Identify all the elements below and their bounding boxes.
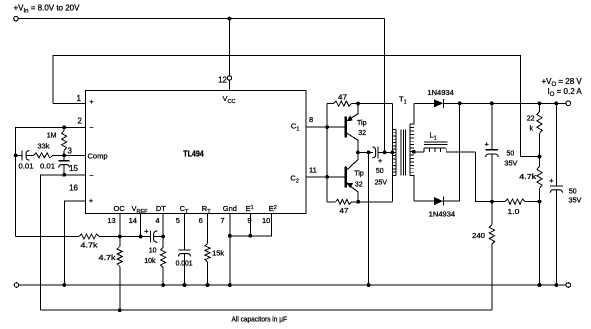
svg-text:6: 6	[199, 216, 203, 225]
svg-text:All capacitors in µF: All capacitors in µF	[232, 314, 288, 323]
junction VO rail D2	[458, 101, 462, 105]
junction gnd pin7	[228, 283, 232, 287]
label 10	[149, 247, 157, 254]
label + 10uF	[144, 227, 149, 236]
svg-text:50: 50	[507, 150, 515, 157]
svg-text:14: 14	[129, 216, 137, 225]
label 33k	[38, 144, 51, 151]
junction gnd 15k	[206, 283, 210, 287]
label 32 top	[358, 130, 366, 137]
inductor L1 core	[424, 142, 448, 145]
ground terminal left	[14, 283, 19, 288]
label Tip top	[357, 120, 367, 127]
capacitor 50uF 35V first	[486, 103, 499, 201]
label 0.01 comp	[40, 164, 55, 171]
label E2	[269, 204, 277, 213]
label 47 bottom	[340, 206, 349, 215]
transformer T1 primary winding	[392, 104, 396, 202]
label pin 14	[129, 216, 137, 225]
label pin 15	[69, 164, 78, 173]
label VCC	[223, 94, 236, 105]
label 50 35V cap2	[568, 188, 581, 204]
junction gnd 4.7k right	[538, 283, 542, 287]
label 240	[472, 233, 485, 240]
resistor 47 top	[327, 101, 358, 106]
label VREF	[132, 204, 149, 215]
junction pin8 node	[325, 125, 329, 129]
svg-text:0.01: 0.01	[40, 164, 55, 171]
wire pin2	[16, 127, 86, 155]
svg-text:TL494: TL494	[183, 150, 204, 159]
svg-text:35V: 35V	[504, 161, 517, 168]
label Gnd	[223, 204, 237, 213]
wire base bus vertical	[326, 104, 328, 202]
svg-text:1M: 1M	[47, 132, 57, 139]
junction gnd 10k	[161, 283, 165, 287]
junction Q1 emitter node	[356, 102, 360, 106]
wire pin12 upper	[229, 19, 231, 76]
junction gnd 0.001	[183, 283, 187, 287]
diode D1 1N4934 top	[434, 99, 444, 108]
svg-text:15k: 15k	[212, 250, 225, 257]
capacitor 0.01 left	[16, 150, 34, 160]
wire pin1 stub	[53, 102, 86, 104]
label pin 13	[107, 216, 115, 225]
label 4.7k vertical	[99, 255, 117, 262]
resistor 15k on pin6	[205, 214, 210, 286]
svg-text:+: +	[485, 139, 490, 148]
svg-text:OC: OC	[114, 204, 126, 213]
label pin 11	[309, 166, 317, 175]
svg-text:Tip: Tip	[354, 171, 364, 178]
label 22k	[527, 115, 535, 132]
svg-text:10k: 10k	[144, 258, 156, 265]
junction cap ground side	[367, 151, 371, 155]
wire pin13	[119, 214, 121, 237]
svg-text:+: +	[378, 156, 383, 165]
junction pin15/cap	[62, 173, 66, 177]
wire VIN top rail	[18, 18, 384, 20]
junction output node	[490, 200, 494, 204]
svg-text:10: 10	[262, 216, 270, 225]
junction VIN feed/cap	[383, 151, 387, 155]
svg-text:+: +	[89, 97, 94, 106]
wire E1 E2 tie	[230, 214, 271, 236]
svg-text:240: 240	[472, 233, 485, 240]
junction gnd pin16	[62, 283, 66, 287]
label pin 16	[69, 184, 78, 193]
wire left rail down	[15, 155, 17, 236]
label pin 12	[218, 76, 227, 85]
label +VO = 28 V	[542, 77, 583, 88]
label 1N4934 bottom	[429, 212, 456, 219]
wire pin14	[140, 214, 142, 237]
label 50 35V cap1	[504, 150, 517, 167]
resistor 4.7k vertical	[117, 237, 122, 311]
svg-text:8: 8	[309, 115, 313, 124]
junction pin11 node	[325, 175, 329, 179]
wire pin12 lower	[229, 80, 231, 90]
resistor 22k	[537, 103, 542, 156]
capacitor 10uF	[150, 231, 163, 243]
junction pin14 node	[139, 235, 143, 239]
svg-text:Comp: Comp	[88, 151, 108, 160]
svg-text:1: 1	[77, 94, 82, 103]
label pin 8	[309, 115, 313, 124]
label C2	[290, 174, 298, 185]
label pin 7	[220, 216, 224, 225]
svg-text:22: 22	[527, 115, 535, 122]
capacitor 0.001 on pin5	[178, 214, 190, 286]
label C1	[291, 121, 299, 132]
junction VIN/pin12	[228, 17, 232, 21]
wire secondary bottom to diode	[414, 200, 434, 202]
svg-text:+: +	[549, 176, 554, 185]
transformer T1 secondary winding	[410, 103, 414, 201]
svg-text:47: 47	[340, 206, 349, 215]
svg-text:1N4934: 1N4934	[429, 212, 456, 219]
label L1	[430, 131, 437, 142]
label pin15 -	[89, 171, 94, 180]
junction pin13 node	[118, 235, 122, 239]
wire pin11	[306, 176, 345, 178]
svg-text:10: 10	[149, 247, 157, 254]
junction pin7/E-tie	[228, 234, 232, 238]
wire diode bottom up	[444, 103, 460, 201]
junction collectors	[356, 151, 360, 155]
label RT	[202, 204, 211, 215]
label pin1 +	[89, 97, 94, 106]
label 1N4934 top	[427, 90, 454, 97]
wire diode top out	[444, 102, 460, 104]
label DT	[156, 204, 166, 213]
transistor Q2 TIP32 bottom	[346, 152, 358, 201]
label 10k	[144, 258, 156, 265]
svg-text:9: 9	[247, 216, 251, 225]
junction pin3 node	[62, 154, 66, 158]
svg-text:−: −	[89, 123, 94, 132]
svg-text:4.7k: 4.7k	[81, 242, 99, 249]
capacitor 50uF 25V	[369, 146, 385, 158]
wire L1 to output node	[475, 152, 492, 202]
resistor 1M	[62, 127, 67, 155]
junction VO cap2	[555, 101, 559, 105]
svg-text:12: 12	[218, 76, 227, 85]
svg-text:4.7k: 4.7k	[519, 174, 537, 181]
op-amp IC U1 TL494 box	[85, 90, 306, 213]
svg-text:Tip: Tip	[357, 120, 367, 127]
capacitor 50uF 35V output	[550, 103, 563, 285]
wire collector cap to ground	[368, 152, 370, 285]
capacitor 0.01 comp	[59, 155, 70, 174]
wire pin1 feedback rail	[53, 55, 540, 156]
wire collector node row	[358, 151, 369, 153]
label 32 bottom	[355, 182, 363, 189]
label 1.0	[507, 209, 519, 216]
label 47 top	[338, 92, 347, 101]
label pin2 -	[89, 123, 94, 132]
junction Q2 emitter node	[356, 200, 360, 204]
svg-text:25V: 25V	[375, 180, 388, 187]
svg-text:+: +	[144, 227, 149, 236]
junction VO cap1	[490, 101, 494, 105]
junction secondary center tap	[412, 150, 416, 154]
svg-text:32: 32	[355, 182, 363, 189]
label E1	[246, 204, 254, 213]
label OC	[114, 204, 126, 213]
svg-text:Gnd: Gnd	[223, 204, 237, 213]
diode D2 1N4934 bottom	[434, 197, 444, 206]
label pin16 +	[89, 196, 94, 205]
label +VIN = 8.0V to 20V	[14, 4, 81, 15]
resistor 10k on pin4	[161, 214, 166, 286]
svg-text:13: 13	[107, 216, 115, 225]
label + cap2	[549, 176, 554, 185]
svg-text:11: 11	[309, 166, 317, 175]
junction gnd output cap	[555, 283, 559, 287]
svg-text:35V: 35V	[568, 198, 581, 205]
junction pin2/1M	[62, 125, 66, 129]
wire pin3	[53, 154, 86, 156]
transformer T1 core	[401, 129, 406, 175]
wire pin7 ground	[229, 214, 231, 286]
label + 50uF25V	[378, 156, 383, 165]
junction left rail/C1cap	[14, 154, 18, 158]
resistor 4.7k horizontal	[79, 234, 99, 239]
junction sense node	[538, 200, 542, 204]
label 50 25V value	[375, 168, 388, 187]
label + cap1	[485, 139, 490, 148]
svg-text:1N4934: 1N4934	[427, 90, 454, 97]
svg-text:33k: 33k	[38, 144, 51, 151]
wire after 4.7k	[99, 236, 150, 238]
resistor 240	[489, 202, 494, 311]
label pin 6	[199, 216, 203, 225]
wire pin9	[249, 214, 251, 236]
junction VO 22k	[538, 101, 542, 105]
label pin 1	[77, 94, 82, 103]
label pin 2	[78, 117, 83, 126]
wire ground rail	[19, 284, 566, 286]
svg-text:1.0: 1.0	[507, 209, 519, 216]
output terminal +VO	[566, 101, 571, 106]
svg-text:0.01: 0.01	[19, 164, 34, 171]
input terminal +VIN	[14, 16, 19, 21]
junction gnd collector cap	[367, 283, 371, 287]
label CT	[180, 204, 189, 215]
resistor 47 bottom	[327, 199, 351, 204]
transistor Q1 TIP32 top	[346, 104, 358, 153]
wire VREF row	[16, 236, 79, 238]
svg-text:5: 5	[176, 216, 180, 225]
junction pin9 tie	[248, 234, 252, 238]
junction primary center tap	[391, 151, 395, 155]
label 15k	[212, 250, 225, 257]
label T1	[399, 95, 407, 106]
wire emitter to primary top	[358, 103, 392, 105]
svg-text:k: k	[530, 126, 534, 133]
label pin 9	[247, 216, 251, 225]
wire VO rail	[460, 102, 566, 104]
wire VIN feed down to transformer center tap	[384, 19, 386, 153]
label 0.001	[176, 261, 193, 268]
svg-text:50: 50	[376, 168, 384, 175]
label TL494	[183, 150, 204, 159]
pin 12 connector circle	[227, 76, 231, 80]
junction feedback/4.7k	[118, 308, 122, 312]
label Comp	[88, 151, 108, 160]
label IO = 0.2 A	[548, 87, 583, 98]
svg-text:15: 15	[69, 164, 78, 173]
svg-text:+: +	[89, 196, 94, 205]
resistor 1.0	[492, 199, 540, 204]
label pin 3	[68, 146, 73, 155]
wire center tap link	[385, 151, 393, 153]
wire pin16	[64, 201, 85, 285]
svg-text:32: 32	[358, 130, 366, 137]
svg-text:16: 16	[69, 184, 78, 193]
svg-text:4.7k: 4.7k	[99, 255, 117, 262]
wire pin8	[306, 126, 345, 128]
junction feedback divider	[538, 155, 542, 159]
resistor 33k	[34, 153, 53, 158]
inductor L1	[414, 148, 475, 152]
wire feedback bottom line	[41, 309, 492, 311]
svg-text:−: −	[89, 171, 94, 180]
label 4.7k right	[519, 174, 537, 181]
svg-text:3: 3	[68, 146, 73, 155]
svg-text:7: 7	[220, 216, 224, 225]
label Tip bottom	[354, 171, 364, 178]
wire sense to ground	[539, 202, 541, 285]
label pin 4	[155, 216, 159, 225]
label All capacitors in uF	[232, 314, 288, 323]
label pin 5	[176, 216, 180, 225]
label pin 10	[262, 216, 270, 225]
wire secondary top to diode	[414, 102, 434, 104]
svg-text:2: 2	[78, 117, 83, 126]
svg-text:DT: DT	[156, 204, 166, 213]
wire emitter to primary bottom	[352, 201, 393, 203]
svg-text:0.001: 0.001	[176, 261, 193, 268]
resistor 4.7k right	[537, 157, 542, 202]
svg-text:47: 47	[338, 92, 347, 101]
svg-text:4: 4	[155, 216, 159, 225]
svg-text:50: 50	[569, 188, 577, 195]
label 4.7k horizontal	[81, 242, 99, 249]
label 0.01 left	[19, 164, 34, 171]
junction pin4 node	[161, 235, 165, 239]
ground terminal right	[566, 283, 571, 288]
wire pin15	[41, 175, 86, 310]
label 1M	[47, 132, 57, 139]
